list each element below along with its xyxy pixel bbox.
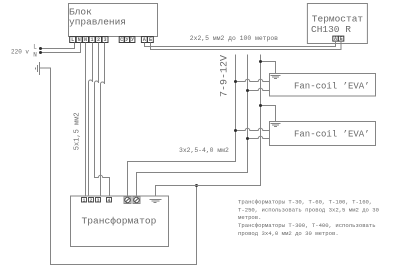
fan-coil 1 box: [270, 74, 376, 97]
terminal strip X3 (А Б): [141, 37, 153, 44]
wire fan-coil 1 feed b (hop over V3): [248, 88, 270, 90]
svg-text:провод 3х4,0 мм2 до 30 метров.: провод 3х4,0 мм2 до 30 метров.: [238, 230, 339, 237]
svg-text:управления: управления: [69, 16, 126, 27]
wire W6 (terminal 6 to transformer T3, with jog): [101, 43, 105, 199]
wire bus V2 (transformer terminal O2 to top): [137, 55, 248, 197]
svg-text:1: 1: [83, 198, 86, 204]
ground symbol in fan-coil 2: [271, 124, 281, 127]
svg-text:метров.: метров.: [238, 214, 262, 221]
wire bus V1 (transformer terminal O1 to top): [128, 55, 236, 197]
wire N (220v to control unit): [41, 43, 81, 53]
thermostat terminals А Б: [333, 36, 344, 42]
svg-text:N: N: [33, 51, 37, 58]
junction dot L: [39, 47, 42, 50]
PE wire (earth run: left side, bottom, up to ground bus): [40, 68, 197, 265]
junction node J6 (ground bus / fan-coil 2): [259, 104, 262, 107]
ground symbol in fan-coil 1: [271, 76, 281, 79]
svg-text:N: N: [84, 37, 87, 43]
svg-text:2х2,5 мм2 до 100 метров: 2х2,5 мм2 до 100 метров: [190, 35, 278, 42]
svg-text:Трансформаторы Т-300, Т-400, и: Трансформаторы Т-300, Т-400, использоват…: [238, 222, 376, 229]
wire fan-coil 1 feed a (hops over V2,V3): [236, 79, 270, 81]
transformer screw terminal O1: [124, 197, 131, 204]
wire B (control unit to thermostat): [151, 41, 342, 50]
wire fan-coil 1 ground tap: [261, 62, 276, 76]
svg-text:3: 3: [104, 37, 107, 43]
svg-text:220 v: 220 v: [11, 48, 29, 55]
junction node J2 (bus V2 / fan-coil 1): [246, 89, 249, 92]
wire A (control unit to thermostat): [145, 41, 336, 47]
fan-coil 2 box: [270, 122, 376, 146]
svg-text:L: L: [33, 43, 37, 50]
junction node J4 (bus V1 / fan-coil 2): [234, 129, 237, 132]
svg-text:2: 2: [90, 198, 93, 204]
note text block: [238, 198, 380, 237]
junction dot PE/ground bus: [195, 184, 198, 187]
svg-text:СН130 R: СН130 R: [311, 24, 351, 35]
svg-text:2: 2: [97, 37, 100, 43]
svg-text:Б: Б: [149, 37, 152, 43]
transformer screw terminal O2: [133, 197, 140, 204]
control unit box U1: [69, 4, 158, 37]
thermostat box U2: [307, 4, 367, 44]
svg-text:Трансформатор: Трансформатор: [82, 215, 157, 226]
junction node J5 (bus V2 / fan-coil 2): [246, 137, 249, 140]
svg-text:1: 1: [91, 37, 94, 43]
wire W4 (terminal 4 to transformer T2, with jog): [89, 43, 93, 199]
ground electrode (mains earth, sideways): [36, 62, 40, 75]
svg-text:Fan-coil ’EVA’: Fan-coil ’EVA’: [294, 82, 370, 92]
wire bus V3 / ground bus (transformer ground to top): [156, 55, 261, 200]
wire L (220v to control unit): [41, 43, 75, 49]
svg-text:7-9-12V: 7-9-12V: [219, 55, 230, 97]
junction dot N: [39, 51, 42, 54]
svg-text:С: С: [120, 37, 123, 43]
svg-text:N: N: [78, 37, 81, 43]
wire W5 (terminal 5 to transformer T4, jog + hop over W6): [95, 43, 110, 199]
svg-text:3: 3: [97, 198, 100, 204]
svg-text:Термостат: Термостат: [312, 13, 364, 24]
svg-text:L: L: [71, 37, 74, 43]
terminal strip X2 (С У У): [119, 37, 135, 44]
ground symbol in transformer: [150, 200, 162, 203]
transformer terminals 1-4: [82, 198, 112, 204]
wire fan-coil 2 feed b (hop over V3): [248, 136, 270, 138]
wire W3 (terminal 3 to transformer T1): [85, 43, 87, 199]
junction node J3 (ground bus / fan-coil 1): [259, 60, 262, 63]
wire fan-coil 2 ground tap: [261, 106, 276, 124]
transformer box T1: [71, 196, 169, 247]
terminal strip X1 (L N N 1 2 3): [70, 37, 108, 44]
svg-text:Fan-coil ’EVA’: Fan-coil ’EVA’: [294, 129, 370, 139]
svg-text:Т-250, использовать провод 3х2: Т-250, использовать провод 3х2,5 мм2 до …: [238, 206, 380, 213]
wire fan-coil 2 feed a (hops over V2,V3): [236, 128, 270, 130]
svg-text:4: 4: [108, 198, 111, 204]
svg-text:Трансформаторы Т-30, Т-60, Т-1: Трансформаторы Т-30, Т-60, Т-100, Т-160,: [238, 198, 372, 205]
svg-text:3х2,5-4,0 мм2: 3х2,5-4,0 мм2: [179, 147, 229, 154]
junction node J1 (bus V1 / fan-coil 1): [234, 80, 237, 83]
svg-text:5х1,5 мм2: 5х1,5 мм2: [73, 112, 81, 150]
